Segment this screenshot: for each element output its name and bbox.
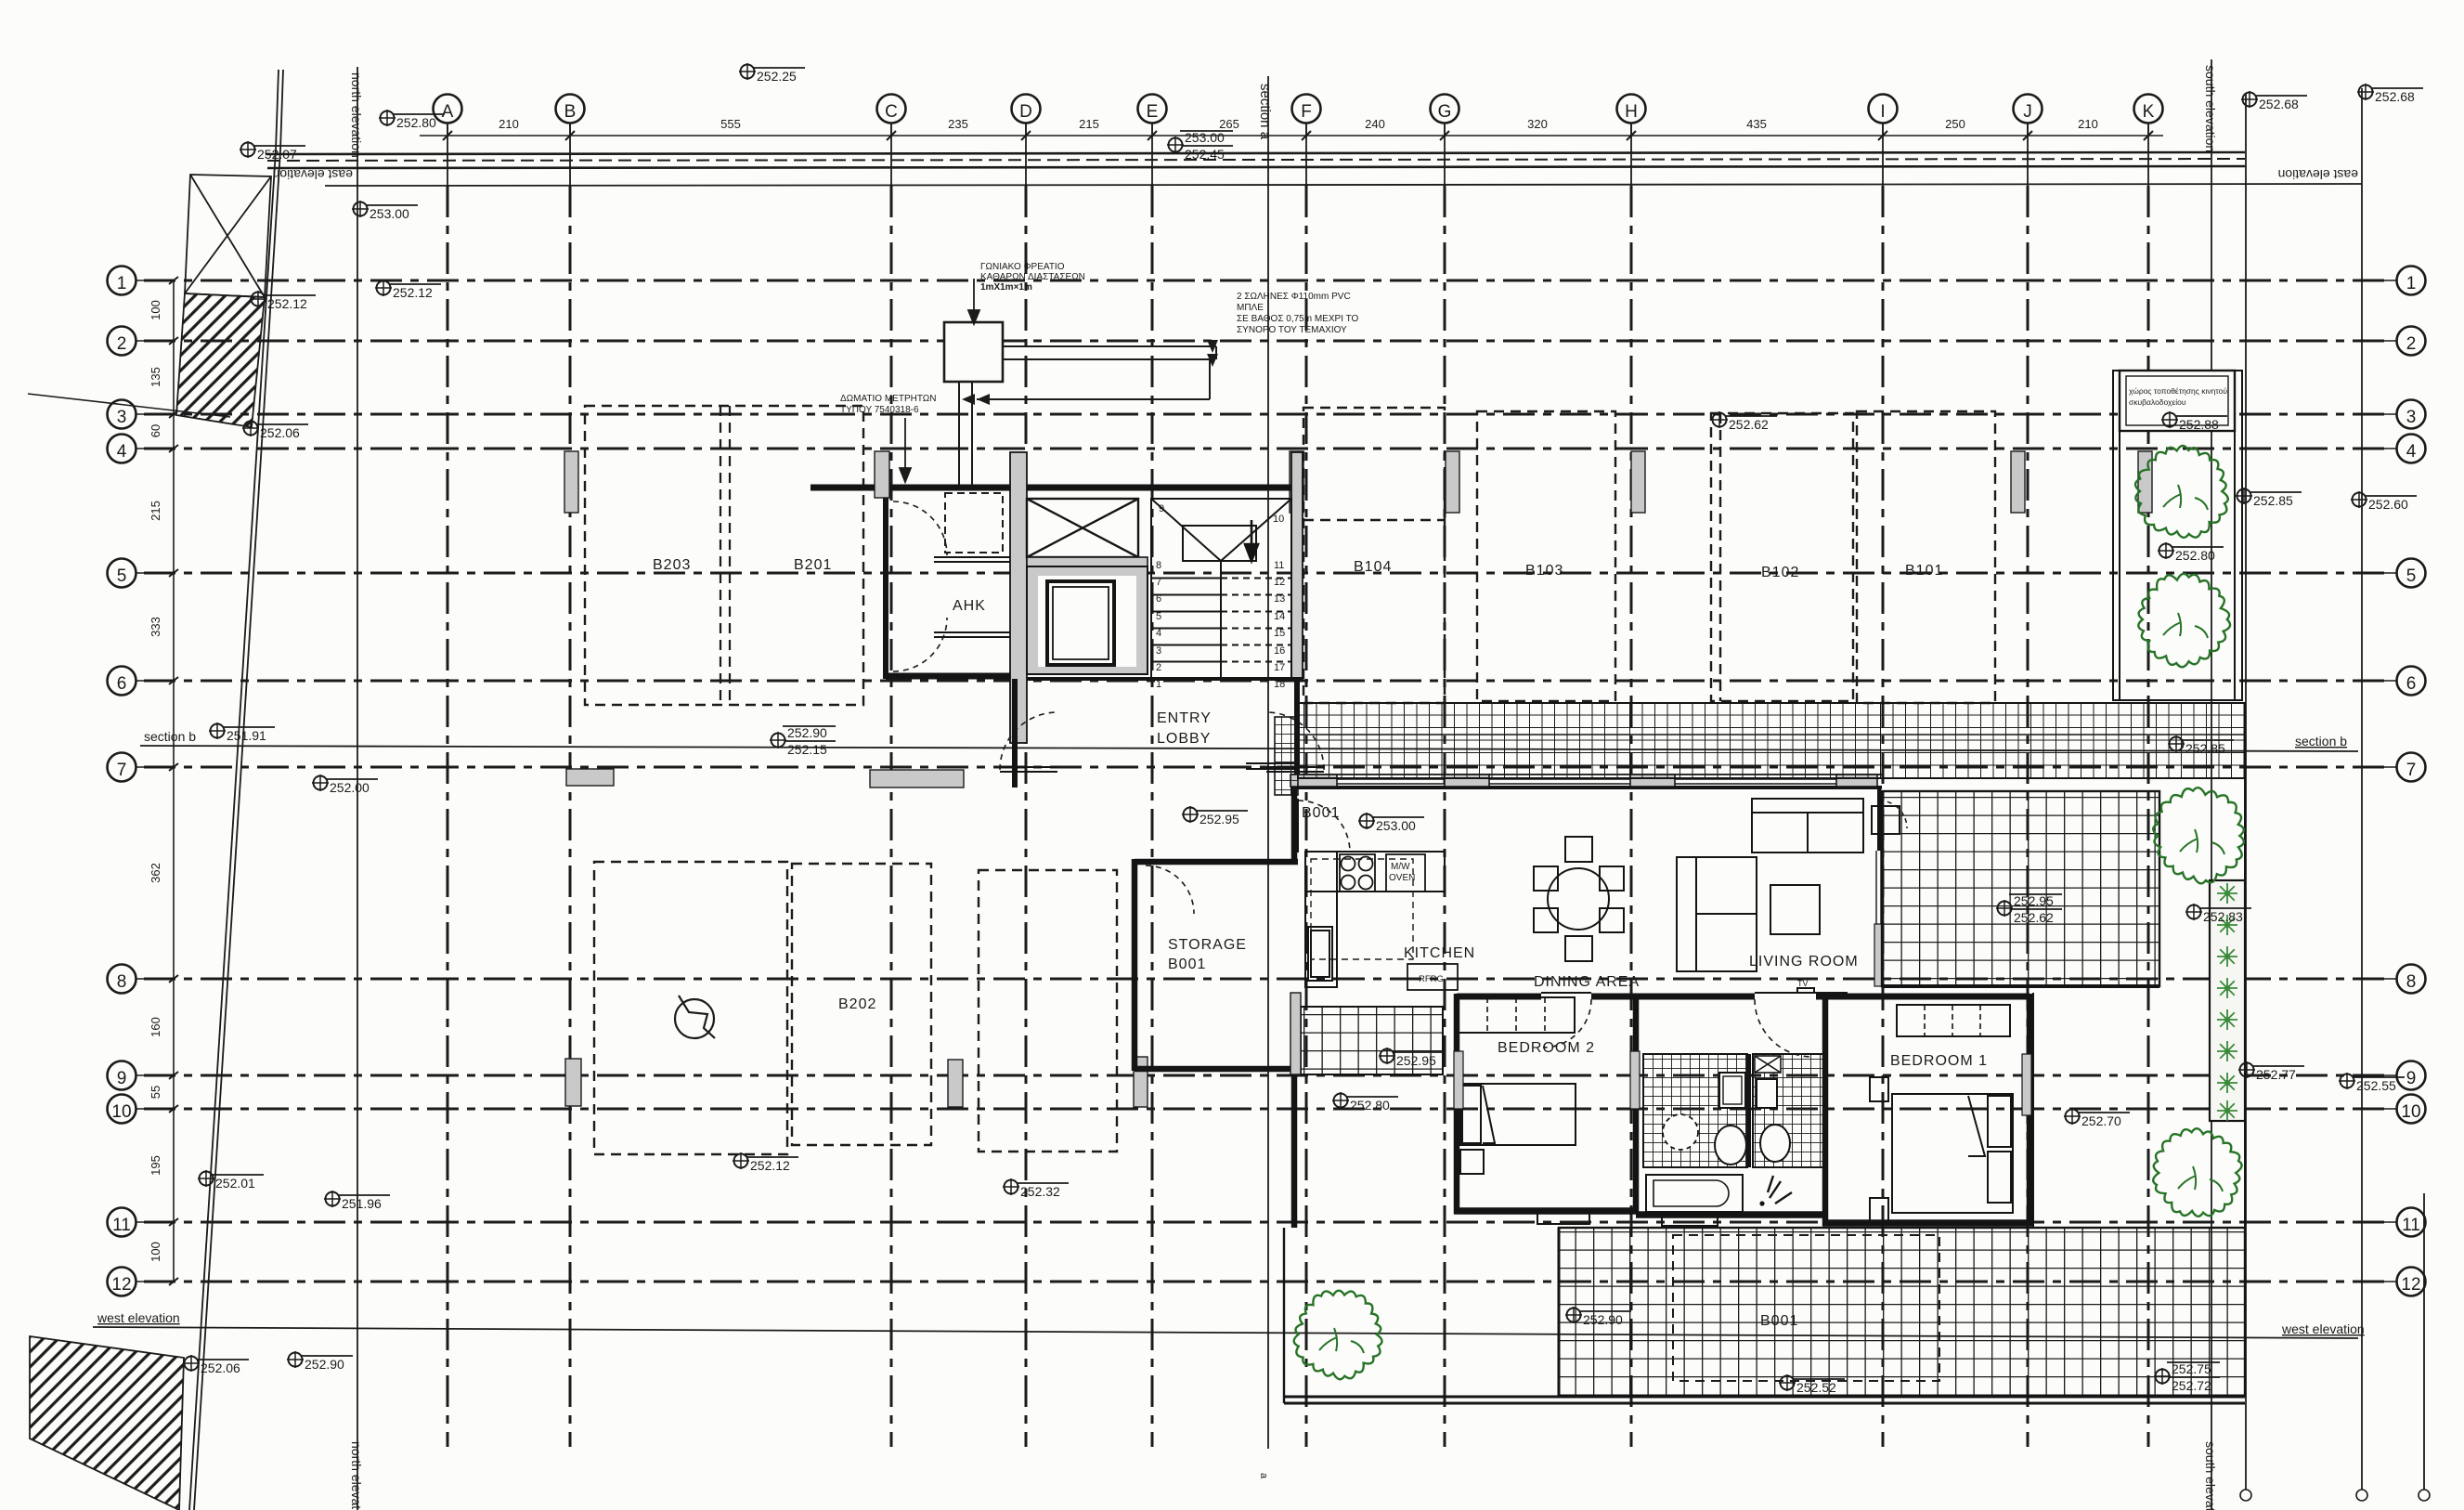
- grid row 12 centerline: [144, 1281, 2392, 1283]
- parking bay B203/B201 dashed outline: [585, 406, 863, 705]
- svg-text:B102: B102: [1761, 565, 1799, 580]
- svg-text:OVEN: OVEN: [1389, 873, 1415, 883]
- grid bubble row 3 left: [108, 400, 175, 429]
- hatched area bottom-left: [30, 1336, 184, 1510]
- level marker 252.07: [240, 141, 305, 162]
- bedroom2 west window gray: [1454, 1051, 1463, 1109]
- level marker 252.85: [2168, 735, 2234, 756]
- svg-text:252.95: 252.95: [1396, 1053, 1436, 1068]
- living room east wall: [1877, 787, 1881, 851]
- tree east walk: [2153, 1128, 2241, 1217]
- svg-text:251.96: 251.96: [342, 1196, 382, 1211]
- svg-text:252.85: 252.85: [2253, 493, 2293, 508]
- living room terrace tiled: [1882, 791, 2159, 986]
- wc right: [1760, 1125, 1790, 1162]
- svg-text:east elevation: east elevation: [2278, 167, 2358, 182]
- svg-text:16: 16: [1274, 645, 1285, 657]
- core north wall: [811, 485, 1303, 491]
- kitchen court tiled patch: [1301, 1007, 1443, 1074]
- apartment north wall window lines: [1337, 779, 1836, 784]
- disabled parking symbol: [675, 996, 715, 1038]
- tree north strip 1: [2135, 446, 2228, 538]
- parking bay B104 dashed outline: [1303, 408, 1445, 703]
- svg-text:12: 12: [1274, 577, 1285, 588]
- svg-text:3: 3: [117, 408, 127, 427]
- svg-text:11: 11: [2402, 1216, 2420, 1235]
- pvc pipes horizontal pair: [1003, 345, 1216, 347]
- svg-text:2 ΣΩΛΗΝΕΣ Φ110mm PVC: 2 ΣΩΛΗΝΕΣ Φ110mm PVC: [1237, 292, 1351, 302]
- entry lobby door arcs: [1000, 712, 1324, 770]
- left dimension chain: [173, 280, 175, 1282]
- level marker 252.01: [198, 1170, 264, 1191]
- level marker 252.90/252.15: [770, 725, 836, 757]
- bathroom tiled floor left: [1643, 1054, 1747, 1167]
- level marker 252.52: [1779, 1374, 1845, 1395]
- svg-text:3: 3: [2406, 408, 2417, 427]
- AHK partition 2: [934, 631, 1010, 633]
- level marker 252.85: [2236, 488, 2302, 508]
- level marker 252.68: [2241, 91, 2307, 111]
- armchair sofa top: [1752, 799, 1863, 853]
- level marker 252.55: [2339, 1073, 2405, 1093]
- pvc pipes note greek text: [1237, 292, 1358, 335]
- level marker 252.60: [2351, 491, 2417, 512]
- bedroom1 bed: [1870, 1077, 2013, 1222]
- staircase dashed treads: [1221, 579, 1291, 680]
- tree east terrace: [2153, 788, 2244, 883]
- grid bubble row 10 right: [2358, 1095, 2426, 1124]
- svg-text:I: I: [1880, 102, 1885, 122]
- svg-text:253.00: 253.00: [370, 206, 409, 221]
- grid row 6 centerline: [144, 680, 2392, 683]
- svg-text:252.12: 252.12: [393, 285, 433, 300]
- parking bay lower-left dashed outline: [594, 862, 787, 1154]
- east elevation section line: [325, 184, 2362, 186]
- entry side walls: [1012, 679, 1018, 788]
- level marker 252.95: [1379, 1048, 1445, 1068]
- svg-text:9: 9: [117, 1069, 127, 1088]
- svg-text:6: 6: [1156, 593, 1161, 605]
- svg-text:σκυβαλοδοχείου: σκυβαλοδοχείου: [2129, 397, 2186, 407]
- svg-text:B001: B001: [1168, 957, 1206, 972]
- level marker 253.00: [352, 201, 418, 221]
- svg-text:5: 5: [117, 566, 127, 586]
- svg-text:B101: B101: [1905, 563, 1943, 579]
- svg-text:4: 4: [117, 442, 127, 462]
- level marker 253.00: [1358, 813, 1424, 833]
- svg-text:320: 320: [1527, 117, 1548, 131]
- B001 entry door arc: [1298, 801, 1350, 853]
- svg-text:252.60: 252.60: [2368, 497, 2408, 512]
- svg-text:8: 8: [117, 972, 127, 992]
- svg-text:60: 60: [149, 424, 162, 437]
- svg-text:north elevation: north elevation: [349, 72, 364, 158]
- stair down arrow: [1245, 520, 1258, 561]
- east boundary line 1: [2240, 93, 2251, 1501]
- bedroom1 wardrobe dashed: [1897, 1005, 2010, 1036]
- grid bubble J: [2014, 95, 2043, 137]
- level marker 252.25: [739, 63, 805, 84]
- svg-text:252.80: 252.80: [1350, 1098, 1390, 1113]
- svg-text:252.70: 252.70: [2081, 1113, 2121, 1128]
- svg-text:12: 12: [2401, 1275, 2420, 1295]
- svg-text:south elevation: south elevation: [2203, 1441, 2218, 1510]
- grid column A centerline: [447, 124, 448, 186]
- svg-text:2: 2: [117, 334, 127, 354]
- MW OVEN box: [1386, 854, 1425, 892]
- street boundary north double line: [266, 152, 2245, 154]
- svg-text:M/W: M/W: [1391, 862, 1410, 872]
- wc left: [1715, 1126, 1746, 1165]
- svg-text:215: 215: [149, 501, 162, 521]
- svg-text:15: 15: [1274, 628, 1285, 639]
- door arc hall/bedroom1: [1755, 999, 1812, 1057]
- grid bubble row 2 right: [2358, 327, 2426, 356]
- garden flower bed: [2210, 880, 2245, 1121]
- level marker 252.88: [2161, 411, 2227, 432]
- shower sparkle: [1768, 1176, 1792, 1204]
- door arc bedroom2: [1543, 999, 1591, 1048]
- shaft void crossed: [1027, 499, 1138, 557]
- parking bay B202 dashed outline: [792, 864, 931, 1145]
- grid row 1 centerline: [144, 280, 2392, 282]
- svg-text:ΓΩΝΙΑΚΟ ΦΡΕΑΤΙΟ: ΓΩΝΙΑΚΟ ΦΡΕΑΤΙΟ: [980, 262, 1065, 272]
- grid bubble A: [434, 95, 462, 137]
- tree courtyard: [1294, 1291, 1382, 1380]
- level marker 252.90: [287, 1351, 353, 1372]
- grid row 8 centerline: [144, 978, 2392, 981]
- RFRG box: [1407, 964, 1458, 990]
- svg-text:265: 265: [1219, 117, 1239, 131]
- svg-text:252.90: 252.90: [305, 1357, 344, 1372]
- svg-text:B: B: [564, 102, 577, 122]
- apartment west wall: [1291, 787, 1298, 862]
- svg-text:1mX1m×1m: 1mX1m×1m: [980, 282, 1032, 293]
- svg-text:AHK: AHK: [953, 598, 986, 614]
- svg-text:BEDROOM 1: BEDROOM 1: [1890, 1053, 1988, 1069]
- grid bubble C: [877, 95, 906, 137]
- svg-text:ENTRY: ENTRY: [1157, 710, 1212, 726]
- wall dining/bedroom2: [1457, 994, 1541, 1000]
- svg-text:RFRG: RFRG: [1419, 974, 1444, 984]
- svg-text:8: 8: [2406, 972, 2417, 992]
- svg-text:252.45: 252.45: [1185, 147, 1225, 162]
- bathroom cabinets top: [1719, 1073, 1745, 1108]
- svg-text:9: 9: [1159, 503, 1164, 514]
- level marker 252.80: [2158, 542, 2224, 563]
- svg-text:TV: TV: [1797, 979, 1809, 988]
- grid bubble row 11 right: [2358, 1208, 2426, 1237]
- stove burners: [1340, 854, 1375, 892]
- grid row 4 centerline: [144, 448, 2392, 450]
- section b line: [140, 746, 2358, 751]
- level marker 252.95/252.62: [1996, 893, 2062, 925]
- svg-text:7: 7: [2406, 761, 2417, 780]
- svg-text:LIVING ROOM: LIVING ROOM: [1749, 954, 1859, 970]
- svg-text:55: 55: [149, 1086, 162, 1099]
- wall AHK/elevator gray band: [1010, 452, 1027, 743]
- svg-text:C: C: [885, 102, 898, 122]
- svg-text:4: 4: [2406, 442, 2417, 462]
- svg-text:252.77: 252.77: [2256, 1067, 2296, 1082]
- svg-text:E: E: [1147, 102, 1159, 122]
- svg-text:252.80: 252.80: [2175, 548, 2215, 563]
- storage door arc: [1146, 866, 1194, 914]
- tree north strip 2: [2138, 574, 2230, 667]
- grid bubble row 4 right: [2358, 435, 2426, 463]
- south terrace tiled: [1559, 1228, 2245, 1396]
- svg-text:6: 6: [117, 674, 127, 694]
- svg-text:252.12: 252.12: [750, 1158, 790, 1173]
- side table: [1872, 806, 1900, 834]
- svg-text:14: 14: [1274, 611, 1285, 622]
- svg-text:252.52: 252.52: [1796, 1380, 1836, 1395]
- AHK column NW: [875, 451, 889, 498]
- grid bubble row 10 left: [108, 1095, 175, 1124]
- wall stubs below row 7: [566, 769, 614, 786]
- svg-text:ΣΕ ΒΑΘΟΣ 0,75m ΜΕΧΡΙ ΤΟ: ΣΕ ΒΑΘΟΣ 0,75m ΜΕΧΡΙ ΤΟ: [1237, 314, 1358, 324]
- svg-text:section b: section b: [144, 729, 196, 744]
- level marker 252.12: [733, 1152, 798, 1173]
- stair east wall gray band: [1291, 452, 1303, 679]
- building bottom wall: [1284, 1396, 2245, 1399]
- staircase: [1151, 499, 1291, 679]
- west property boundary double line: [276, 70, 279, 150]
- north garden strip: [2113, 371, 2242, 700]
- svg-text:5: 5: [2406, 566, 2417, 586]
- svg-text:435: 435: [1746, 117, 1767, 131]
- leader arrow to meter pit: [968, 279, 979, 324]
- svg-text:252.15: 252.15: [787, 742, 827, 757]
- svg-text:1: 1: [2406, 274, 2417, 293]
- level marker 252.32: [1003, 1178, 1069, 1199]
- street centerline dashed: [267, 159, 2245, 161]
- dining table: [1534, 837, 1624, 961]
- entry tile patch: [1275, 717, 1298, 795]
- shower circle: [1663, 1114, 1698, 1150]
- north elevation section line: [357, 67, 358, 1510]
- storage room walls: [1135, 859, 1298, 1071]
- svg-text:3: 3: [1156, 645, 1161, 657]
- svg-text:1: 1: [117, 274, 127, 293]
- AHK south wall: [886, 673, 1027, 680]
- svg-text:13: 13: [1274, 593, 1285, 605]
- grid bubble K: [2134, 95, 2163, 137]
- svg-text:100: 100: [149, 1242, 162, 1262]
- south elevation section line: [2211, 59, 2212, 1510]
- svg-text:8: 8: [1156, 560, 1161, 571]
- bedroom2 bed: [1460, 1084, 1576, 1174]
- coffee table: [1770, 885, 1820, 934]
- svg-text:252.83: 252.83: [2203, 909, 2243, 924]
- svg-text:135: 135: [149, 367, 162, 387]
- svg-text:B104: B104: [1354, 559, 1392, 575]
- grid bubble row 1 right: [2358, 267, 2426, 295]
- svg-text:section a: section a: [1257, 84, 1273, 140]
- svg-text:11: 11: [1274, 560, 1284, 571]
- svg-text:252.68: 252.68: [2375, 89, 2415, 104]
- svg-text:252.90: 252.90: [787, 725, 827, 740]
- parking bay lower-right dashed outline: [979, 870, 1117, 1152]
- svg-text:west elevation: west elevation: [2281, 1321, 2365, 1336]
- grid bubble row 12 left: [108, 1268, 175, 1296]
- svg-text:ΔΩΜΑΤΙΟ ΜΕΤΡΗΤΩΝ: ΔΩΜΑΤΙΟ ΜΕΤΡΗΤΩΝ: [840, 394, 936, 404]
- bedroom1 west wall: [1822, 994, 1829, 1226]
- AHK partition 1: [934, 557, 1010, 637]
- svg-text:195: 195: [149, 1155, 162, 1176]
- level marker 252.83: [2185, 904, 2251, 924]
- level marker 251.91: [209, 722, 275, 743]
- courtyard walls: [1558, 1228, 1561, 1396]
- grid column C centerline: [890, 124, 892, 186]
- grid bubble H: [1617, 95, 1646, 137]
- svg-text:210: 210: [2078, 117, 2098, 131]
- svg-text:east elevation: east elevation: [273, 167, 353, 182]
- svg-text:D: D: [1019, 102, 1032, 122]
- svg-text:H: H: [1625, 102, 1638, 122]
- elevator shaft: [1027, 566, 1148, 674]
- svg-text:DINING AREA: DINING AREA: [1534, 974, 1640, 990]
- level marker 252.00: [312, 775, 378, 795]
- bathtub: [1646, 1175, 1743, 1212]
- svg-text:555: 555: [720, 117, 741, 131]
- meter pit box: [944, 322, 1003, 382]
- svg-text:B001: B001: [1760, 1313, 1798, 1329]
- bedroom2 east wall: [1633, 994, 1640, 1214]
- sofa L: [1677, 799, 1900, 971]
- svg-text:south elevation: south elevation: [2203, 65, 2218, 152]
- svg-text:252.01: 252.01: [215, 1176, 255, 1191]
- svg-text:STORAGE: STORAGE: [1168, 937, 1247, 953]
- level marker 252.80: [379, 110, 445, 130]
- svg-text:362: 362: [149, 863, 162, 883]
- grid bubble row 8 right: [2358, 965, 2426, 994]
- svg-text:ΜΠΛΕ: ΜΠΛΕ: [1237, 303, 1264, 313]
- svg-text:252.72: 252.72: [2172, 1378, 2211, 1393]
- grid bubble row 7 left: [108, 753, 175, 782]
- svg-text:north elevation: north elevation: [349, 1441, 364, 1510]
- TV: [1763, 988, 1848, 993]
- grid column B centerline: [569, 124, 571, 186]
- svg-text:250: 250: [1945, 117, 1965, 131]
- grid row 11 centerline: [144, 1221, 2392, 1224]
- east strip wall: [2032, 993, 2034, 1228]
- svg-text:7: 7: [117, 761, 127, 780]
- west elevation section line: [93, 1327, 2358, 1338]
- svg-text:A: A: [442, 102, 454, 122]
- svg-text:5: 5: [1156, 611, 1161, 622]
- svg-text:252.06: 252.06: [260, 425, 300, 440]
- level marker 252.12: [250, 291, 316, 311]
- parking bay B101 dashed outline: [1857, 411, 1995, 703]
- grid row 10 centerline: [144, 1108, 2392, 1111]
- grid row 5 centerline: [144, 572, 2392, 575]
- flowers strip: [2217, 883, 2237, 1121]
- grid bubble E: [1138, 95, 1167, 137]
- svg-text:252.85: 252.85: [2185, 741, 2225, 756]
- pit note greek text: [980, 262, 1085, 293]
- svg-text:252.95: 252.95: [1200, 812, 1239, 827]
- grid column E centerline: [1151, 124, 1153, 186]
- svg-text:235: 235: [948, 117, 968, 131]
- meter room note greek text: [840, 394, 936, 415]
- grid bubble row 7 right: [2358, 753, 2426, 782]
- svg-text:252.80: 252.80: [396, 115, 436, 130]
- grid bubble B: [556, 95, 585, 137]
- bathroom tiled floor right: [1753, 1054, 1825, 1167]
- svg-text:ΤΥΠΟΥ 7540318-6: ΤΥΠΟΥ 7540318-6: [840, 405, 919, 415]
- svg-text:9: 9: [2406, 1069, 2417, 1088]
- svg-text:F: F: [1301, 102, 1312, 122]
- svg-text:160: 160: [149, 1017, 162, 1037]
- grid bubble I: [1869, 95, 1898, 137]
- grid bubble row 6 left: [108, 667, 175, 696]
- svg-text:B201: B201: [794, 557, 832, 573]
- svg-text:G: G: [1438, 102, 1452, 122]
- grid bubble row 11 left: [108, 1208, 175, 1237]
- svg-text:215: 215: [1079, 117, 1099, 131]
- svg-text:252.62: 252.62: [2014, 910, 2054, 925]
- svg-text:252.06: 252.06: [201, 1360, 240, 1375]
- svg-text:10: 10: [111, 1102, 131, 1122]
- svg-text:B203: B203: [653, 557, 691, 573]
- svg-text:252.32: 252.32: [1020, 1184, 1060, 1199]
- AHK west wall: [883, 485, 888, 679]
- section a line: [1267, 76, 1269, 1449]
- bedroom1 south wall: [1822, 1219, 2033, 1227]
- grid bubble row 2 left: [108, 327, 175, 356]
- level marker 251.96: [324, 1191, 390, 1211]
- grid row 7 centerline: [144, 766, 2392, 769]
- bath south wall: [1636, 1211, 1825, 1218]
- grid column J centerline: [2027, 124, 2029, 186]
- svg-text:BEDROOM 2: BEDROOM 2: [1498, 1040, 1595, 1056]
- level marker 252.70: [2064, 1108, 2130, 1128]
- concrete columns row 9-10: [565, 1059, 581, 1106]
- grid bubble row 5 right: [2358, 559, 2426, 588]
- svg-text:210: 210: [499, 117, 519, 131]
- svg-text:section b: section b: [2295, 734, 2347, 748]
- svg-text:KITCHEN: KITCHEN: [1404, 945, 1475, 961]
- kitchen counters: [1305, 852, 1445, 987]
- grid bubble row 1 left: [108, 267, 175, 295]
- svg-text:253.00: 253.00: [1185, 130, 1225, 145]
- svg-text:252.95: 252.95: [2014, 893, 2054, 908]
- svg-text:252.55: 252.55: [2356, 1078, 2396, 1093]
- grid bubble row 9 right: [2358, 1061, 2426, 1090]
- grid column H centerline: [1630, 124, 1632, 186]
- svg-text:17: 17: [1274, 662, 1285, 673]
- grid row 2 centerline: [144, 340, 2392, 343]
- svg-text:12: 12: [111, 1275, 131, 1295]
- svg-text:ΚΑΘΑΡΩΝ ΔΙΑΣΤΑΣΕΩΝ: ΚΑΘΑΡΩΝ ΔΙΑΣΤΑΣΕΩΝ: [980, 272, 1085, 282]
- svg-text:251.91: 251.91: [227, 728, 266, 743]
- grid bubble row 6 right: [2358, 667, 2426, 696]
- parking bay B102 dashed outline: [1711, 413, 1853, 701]
- grid column K centerline: [2147, 124, 2149, 186]
- bedroom1 east wall: [2027, 994, 2033, 1226]
- hatched pavement area top-left: [176, 293, 265, 427]
- svg-text:4: 4: [1156, 628, 1161, 639]
- bedroom2 south wall: [1454, 1207, 1636, 1215]
- vent shaft crossed small: [1755, 1056, 1781, 1073]
- wall living/bedrooms: [1591, 994, 1755, 1000]
- rubbish bin box: [2120, 371, 2235, 431]
- svg-text:10: 10: [2401, 1102, 2420, 1122]
- kitchen dashed counter line: [1311, 859, 1413, 959]
- svg-text:252.68: 252.68: [2259, 97, 2299, 111]
- svg-text:252.25: 252.25: [757, 69, 797, 84]
